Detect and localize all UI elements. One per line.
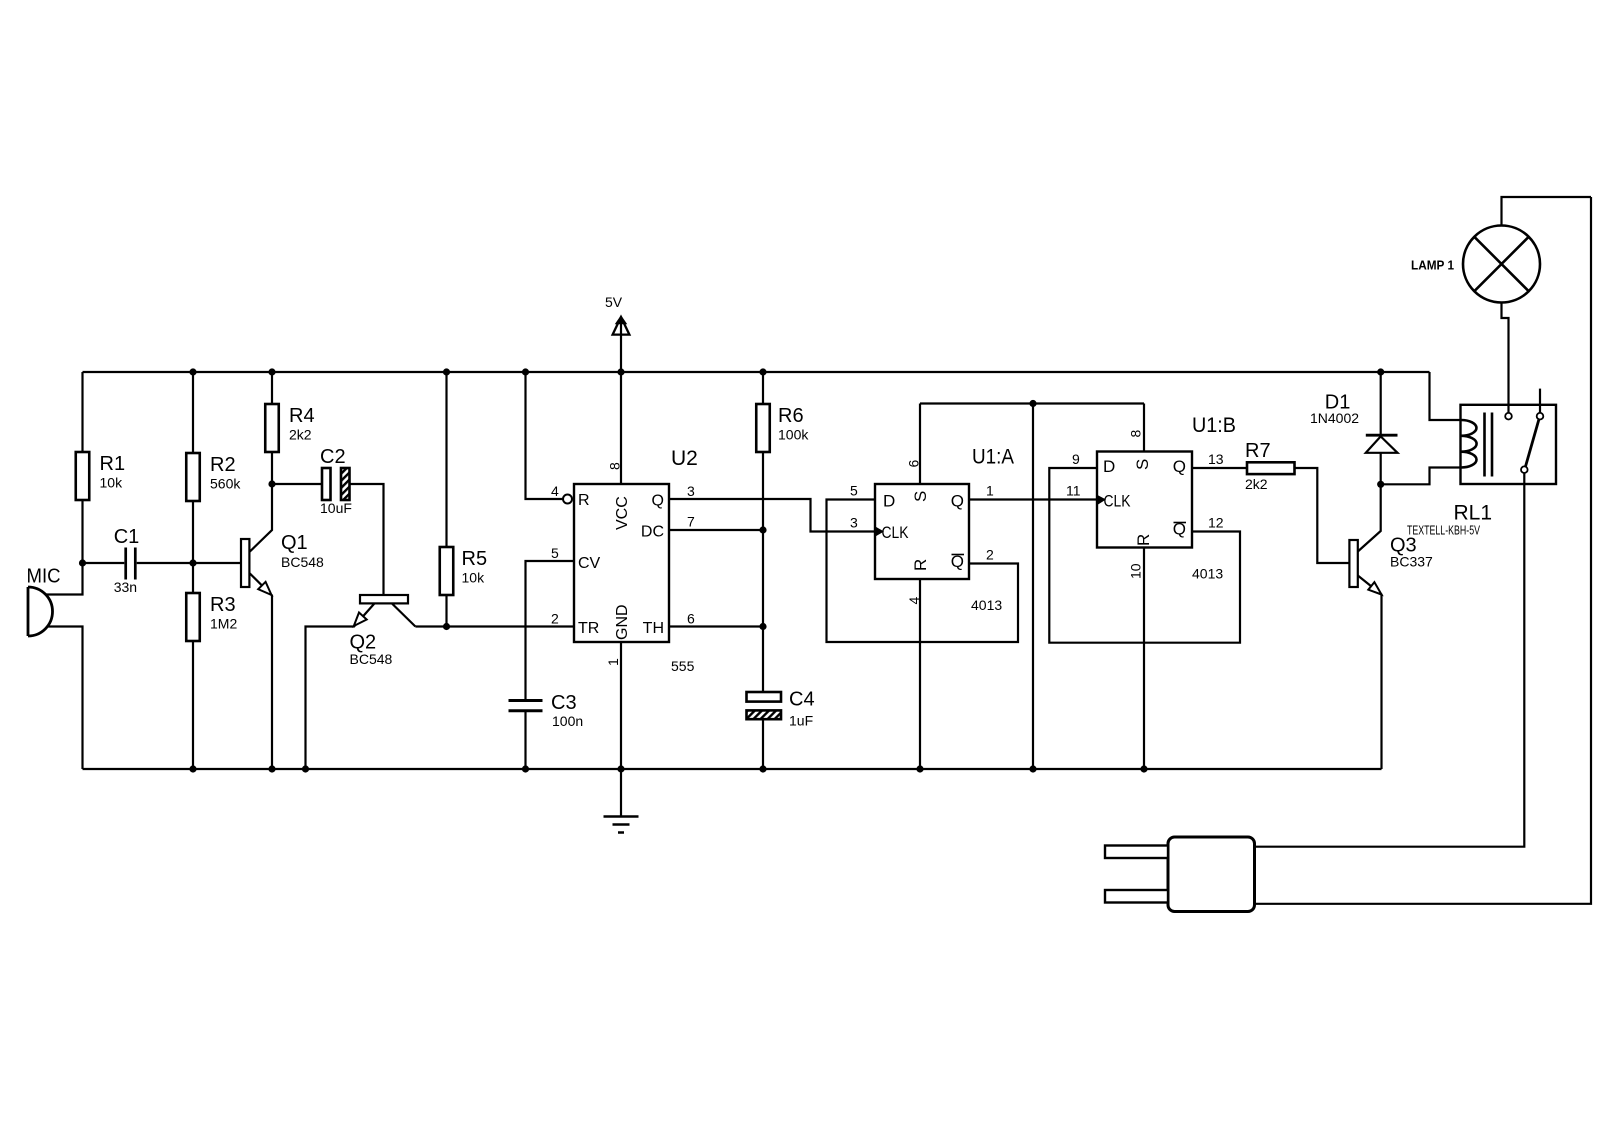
svg-text:S: S [1133, 459, 1152, 470]
resistor R3 [186, 593, 237, 641]
wire DC-TH vertical link [762, 530, 764, 627]
svg-text:2k2: 2k2 [1245, 476, 1268, 492]
wire C4 bottom lead [762, 719, 764, 769]
svg-text:555: 555 [671, 658, 695, 674]
wire C2 left lead [272, 483, 322, 485]
wire D1 anode to Q3 collector node [1380, 453, 1382, 485]
junction rail-R2 [189, 368, 196, 375]
junction 0V-setdrop [1029, 765, 1036, 772]
wire 555 DC pin7 wire [669, 529, 763, 531]
svg-text:5V: 5V [605, 294, 623, 310]
svg-text:10k: 10k [100, 475, 124, 491]
svg-text:Q: Q [951, 492, 964, 511]
wire lamp top to mains loop [1502, 197, 1592, 226]
svg-text:4013: 4013 [1192, 566, 1223, 582]
svg-text:DC: DC [641, 524, 664, 541]
wire 555 CV pin5 wire [526, 561, 575, 700]
junction 0V-U1Apin4 [916, 765, 923, 772]
wire U1:A D pin5 / Qbar feedback loop [827, 500, 1019, 643]
svg-text:R2: R2 [210, 454, 236, 476]
junction rail-R6 [759, 368, 766, 375]
wire 555 Q pin3 wire to U1:A CLK [669, 499, 875, 532]
wire 555 reset pin4 wire [526, 372, 564, 499]
svg-text:1N4002: 1N4002 [1310, 410, 1359, 426]
svg-text:10k: 10k [462, 570, 486, 586]
svg-text:R1: R1 [100, 453, 126, 475]
junction rail-R4 [268, 368, 275, 375]
svg-text:13: 13 [1208, 451, 1224, 467]
ground symbol [604, 769, 639, 833]
svg-text:U1:B: U1:B [1192, 414, 1236, 437]
wire R3 bottom lead [192, 641, 194, 769]
svg-text:2: 2 [986, 547, 994, 563]
wire rail corner down to coil top [1430, 372, 1462, 420]
svg-text:GND: GND [614, 604, 631, 640]
svg-text:R7: R7 [1245, 440, 1271, 462]
svg-text:R: R [1134, 534, 1153, 546]
microphone MIC [27, 566, 61, 637]
wire R5 bottom lead [445, 595, 447, 627]
svg-text:R4: R4 [289, 405, 315, 427]
junction DC-R6 [759, 526, 766, 533]
IC U2 555 timer [551, 447, 698, 674]
junction C1-R2-R3-Q1 [189, 559, 196, 566]
wire relay common to plug live [1255, 473, 1525, 847]
svg-text:1uF: 1uF [789, 713, 813, 729]
wire 555 GND pin1 wire [620, 642, 622, 769]
wire U1:A R pin4 to 0V [919, 579, 921, 769]
wire R6 top lead [762, 372, 764, 404]
resistor R7 2k2 [1245, 440, 1295, 492]
svg-text:560k: 560k [210, 476, 241, 492]
transistor Q3 BC337 [1349, 484, 1433, 769]
555 reset pin inversion circle [563, 495, 572, 504]
svg-text:5: 5 [850, 483, 858, 499]
wire R5 top lead [445, 372, 447, 547]
wire C2 right lead to Q2 base [350, 484, 384, 595]
svg-text:C3: C3 [551, 692, 577, 714]
transistor Q2 BC548 [306, 595, 416, 769]
svg-text:MIC: MIC [27, 566, 61, 588]
wire base wire to Q1 [193, 562, 241, 564]
wire mains right side down to plug [1255, 197, 1592, 904]
wire lamp bottom to relay contact [1502, 303, 1509, 413]
svg-text:U2: U2 [671, 447, 698, 470]
junction 0V-Q1em [268, 765, 275, 772]
capacitor C1 33n [114, 526, 140, 595]
svg-text:R5: R5 [462, 548, 488, 570]
resistor R5 [440, 547, 487, 595]
wire R1 bottom to C1 node [81, 500, 83, 563]
svg-text:TR: TR [578, 620, 599, 637]
capacitor C3 100n [509, 692, 584, 729]
junction TH-C4 [759, 623, 766, 630]
wire Q2 collector to 555 TR [415, 625, 574, 627]
svg-text:R3: R3 [210, 594, 236, 616]
svg-text:Q: Q [1173, 457, 1186, 476]
svg-text:D: D [883, 492, 895, 511]
junction C1-R1-MIC [79, 559, 86, 566]
wire R2 top lead [192, 372, 194, 453]
svg-text:1: 1 [986, 483, 994, 499]
wire C1 left lead [83, 562, 125, 564]
svg-text:CLK: CLK [1104, 492, 1132, 511]
junction rail-555reset [522, 368, 529, 375]
wire 555 TH pin6 wire [669, 625, 763, 627]
wire U1:B R pin10 to 0V [1143, 548, 1145, 770]
svg-text:4: 4 [551, 483, 559, 499]
svg-text:R: R [911, 559, 930, 571]
svg-text:9: 9 [1072, 451, 1080, 467]
mains plug [1105, 837, 1255, 912]
wire set rail (S pins to 0V) [920, 402, 1144, 404]
junction 0V-Q2em [302, 765, 309, 772]
svg-text:D: D [1103, 457, 1115, 476]
diode D1 1N4002 [1310, 392, 1398, 453]
wire R4 top lead [271, 372, 273, 404]
resistor R4 [265, 404, 314, 452]
resistor R1 [76, 452, 125, 500]
svg-text:R: R [578, 492, 590, 509]
svg-text:C4: C4 [789, 689, 815, 711]
wire R2-R3 node wire [192, 500, 194, 593]
wire 555 VCC pin8 wire [620, 372, 622, 484]
junction 0V-GND [617, 765, 624, 772]
svg-text:CLK: CLK [882, 523, 910, 542]
IC U1:A 4013 flip-flop [850, 446, 1014, 614]
svg-text:CV: CV [578, 555, 601, 572]
+5V power symbol [605, 294, 629, 372]
wire C3 bottom lead [524, 711, 526, 769]
wire top +5V rail [83, 371, 1430, 373]
wire left column top (rail to R1) [81, 372, 83, 452]
svg-text:100k: 100k [778, 427, 809, 443]
svg-text:1: 1 [605, 658, 621, 666]
svg-text:100n: 100n [552, 713, 583, 729]
relay RL1 TEXTELL-KBH-5V [1407, 389, 1556, 538]
svg-text:LAMP 1: LAMP 1 [1411, 258, 1454, 273]
wire R6 bottom lead [762, 452, 764, 530]
wire R7 to Q3 base [1295, 468, 1350, 563]
svg-text:VCC: VCC [614, 496, 631, 530]
svg-text:10uF: 10uF [320, 500, 352, 516]
wire MIC bottom lead to ground rail [47, 627, 83, 770]
wire bottom 0V rail [83, 768, 1382, 770]
svg-text:BC548: BC548 [350, 651, 393, 667]
svg-text:BC337: BC337 [1390, 554, 1433, 570]
resistor R2 [186, 453, 241, 501]
svg-text:7: 7 [687, 514, 695, 530]
svg-text:4013: 4013 [971, 597, 1002, 613]
svg-text:10: 10 [1128, 563, 1144, 579]
wire U1:B S pin8 wire [1143, 404, 1145, 452]
wire set rail drop to 0V [1032, 404, 1034, 770]
wire coil bottom wire [1381, 468, 1461, 485]
junction 0V-U1Bpin10 [1140, 765, 1147, 772]
svg-text:3: 3 [850, 515, 858, 531]
junction 0V-R3 [189, 765, 196, 772]
junction R4-C2-Q1col [268, 480, 275, 487]
svg-text:Q1: Q1 [281, 532, 308, 554]
wire TH to C4 lead [762, 627, 764, 693]
wire D1 cathode to +5V rail [1380, 372, 1382, 435]
capacitor C2 10uF (polarized) [320, 446, 352, 516]
svg-text:Q: Q [652, 493, 664, 510]
svg-text:R6: R6 [778, 405, 804, 427]
junction 0V-C3 [522, 765, 529, 772]
svg-text:2: 2 [551, 611, 559, 627]
junction rail-D1 [1377, 368, 1384, 375]
junction setrail-drop [1029, 400, 1036, 407]
wire R4 bottom lead [271, 452, 273, 484]
svg-text:6: 6 [687, 611, 695, 627]
svg-text:1M2: 1M2 [210, 616, 237, 632]
wire U1:A S pin6 to set rail [919, 404, 921, 485]
lamp LAMP 1 [1411, 226, 1540, 303]
wire C1 node down to MIC top lead [45, 563, 83, 595]
svg-text:11: 11 [1066, 483, 1081, 499]
svg-text:BC548: BC548 [281, 554, 324, 570]
resistor R6 [756, 404, 809, 452]
wire U1:B D pin9 / Qbar feedback loop [1049, 468, 1240, 643]
svg-text:8: 8 [1128, 430, 1144, 438]
svg-text:33n: 33n [114, 579, 137, 595]
wire U1:A Q pin1 to U1:B CLK pin11 [969, 498, 1097, 500]
svg-text:2k2: 2k2 [289, 427, 312, 443]
IC U1:B 4013 flip-flop [1066, 414, 1236, 582]
svg-text:RL1: RL1 [1454, 502, 1493, 525]
svg-text:3: 3 [687, 483, 695, 499]
svg-text:U1:A: U1:A [972, 446, 1014, 469]
junction 0V-C4 [759, 765, 766, 772]
capacitor C4 1uF (polarized) [747, 689, 815, 729]
junction rail-VCC [617, 368, 624, 375]
junction D1-coil-Q3 [1377, 481, 1384, 488]
junction rail-R5 [443, 368, 450, 375]
junction R5-Q2col-TR [443, 623, 450, 630]
wire C1 right lead [137, 562, 193, 564]
svg-text:C2: C2 [320, 446, 346, 468]
svg-text:12: 12 [1208, 515, 1224, 531]
svg-text:S: S [911, 491, 930, 502]
svg-text:TH: TH [643, 620, 664, 637]
transistor Q1 BC548 [241, 484, 324, 769]
svg-text:TEXTELL-KBH-5V: TEXTELL-KBH-5V [1407, 523, 1480, 538]
wire U1:B Q pin13 to R7 [1192, 467, 1247, 469]
svg-text:5: 5 [551, 545, 559, 561]
svg-text:C1: C1 [114, 526, 140, 548]
